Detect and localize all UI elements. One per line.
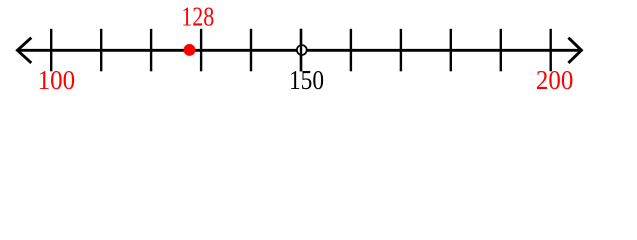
- svg-text:200: 200: [536, 65, 573, 95]
- svg-text:100: 100: [38, 65, 76, 95]
- svg-text:150: 150: [289, 65, 324, 95]
- svg-text:128: 128: [181, 2, 214, 32]
